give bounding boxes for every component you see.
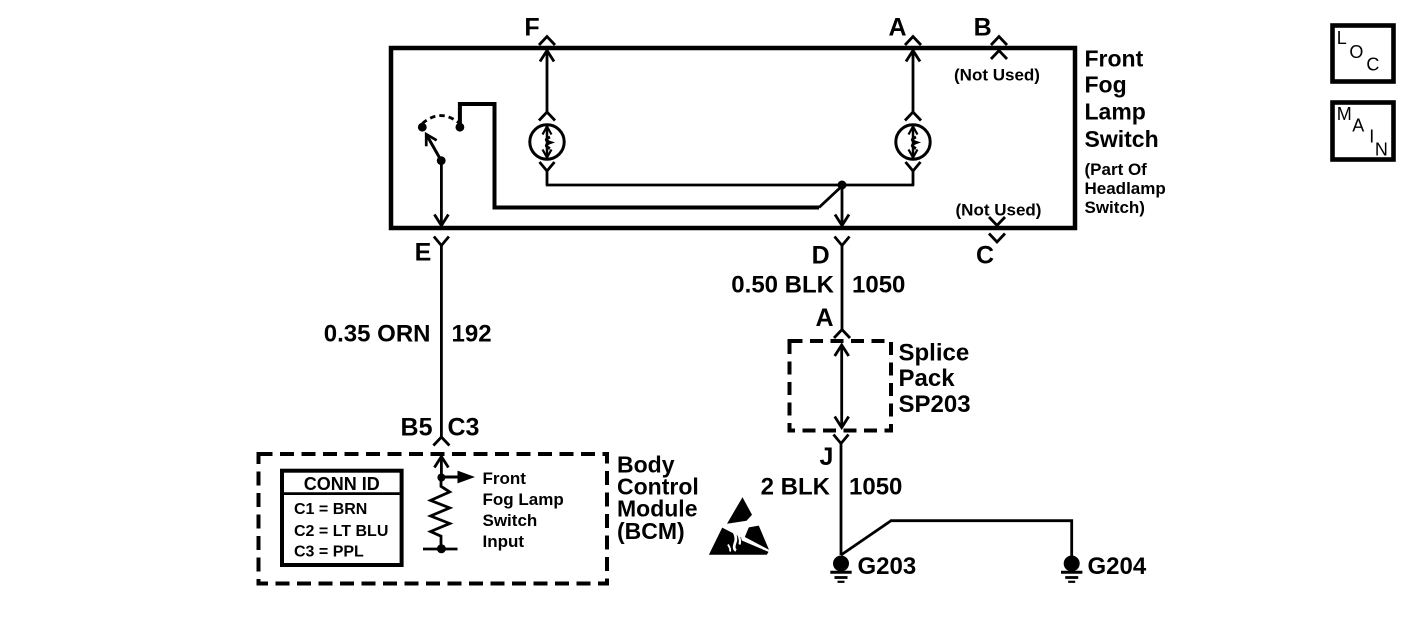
svg-text:C1 = BRN: C1 = BRN: [294, 501, 367, 518]
svg-text:G204: G204: [1088, 553, 1147, 580]
svg-text:Headlamp: Headlamp: [1085, 179, 1166, 198]
svg-text:SP203: SP203: [899, 391, 971, 418]
svg-text:C: C: [1366, 55, 1379, 75]
svg-text:F: F: [524, 14, 539, 42]
svg-text:Input: Input: [483, 532, 525, 551]
svg-text:2 BLK: 2 BLK: [761, 474, 831, 501]
svg-text:E: E: [415, 239, 432, 267]
svg-text:1050: 1050: [852, 272, 905, 299]
svg-text:Fog Lamp: Fog Lamp: [483, 490, 564, 509]
svg-text:O: O: [1349, 42, 1363, 62]
svg-text:A: A: [1352, 115, 1364, 135]
svg-text:B: B: [974, 14, 992, 42]
svg-text:(Not Used): (Not Used): [954, 66, 1040, 85]
svg-text:Lamp: Lamp: [1085, 99, 1146, 125]
svg-text:L: L: [1337, 28, 1347, 48]
svg-text:Pack: Pack: [899, 365, 956, 392]
svg-text:C2 = LT BLU: C2 = LT BLU: [294, 523, 388, 540]
svg-text:(Not Used): (Not Used): [956, 201, 1042, 220]
svg-text:192: 192: [452, 321, 492, 348]
svg-text:Splice: Splice: [899, 340, 970, 367]
svg-text:1050: 1050: [849, 474, 902, 501]
svg-text:C3: C3: [448, 414, 480, 442]
svg-text:C: C: [976, 242, 994, 270]
svg-text:J: J: [820, 443, 834, 471]
svg-text:D: D: [812, 242, 830, 270]
svg-text:Switch: Switch: [1085, 126, 1159, 152]
svg-text:Front: Front: [483, 469, 527, 488]
svg-text:Front: Front: [1085, 45, 1144, 71]
svg-text:CONN ID: CONN ID: [304, 474, 380, 494]
svg-text:A: A: [815, 304, 833, 332]
svg-text:G203: G203: [858, 553, 917, 580]
svg-text:M: M: [1337, 104, 1352, 124]
svg-text:(Part Of: (Part Of: [1085, 160, 1148, 179]
svg-text:Switch: Switch: [483, 511, 538, 530]
svg-text:N: N: [1375, 139, 1388, 159]
svg-text:0.35 ORN: 0.35 ORN: [324, 321, 431, 348]
svg-text:I: I: [1369, 127, 1374, 147]
svg-text:0.50 BLK: 0.50 BLK: [731, 272, 834, 299]
svg-text:Fog: Fog: [1085, 72, 1127, 98]
svg-text:Switch): Switch): [1085, 198, 1145, 217]
svg-text:C3 = PPL: C3 = PPL: [294, 544, 364, 561]
svg-text:(BCM): (BCM): [617, 518, 685, 544]
svg-text:A: A: [888, 14, 906, 42]
svg-text:B5: B5: [401, 414, 433, 442]
